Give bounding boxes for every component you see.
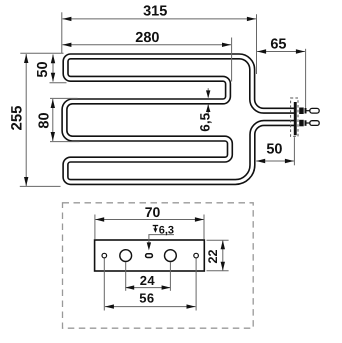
dimension 6,5 (tube diameter) (197, 88, 212, 131)
extension line right of 280 (x=231.6) (231, 38, 233, 82)
detail view dashed border box (63, 203, 254, 328)
extension line right of 70 (x=204) (203, 215, 205, 240)
dimension 70 (95, 204, 204, 222)
svg-text:65: 65 (270, 36, 286, 52)
small hole left (102, 253, 107, 258)
svg-text:56: 56 (139, 290, 154, 305)
terminal hole left (120, 250, 132, 262)
extension line bottom of 255 (y=186.4) (20, 185, 61, 187)
extension line left of 24 (x=125.7) (125, 262, 127, 291)
svg-text:24: 24 (140, 273, 156, 288)
dimension 280 (62, 30, 231, 47)
heating element tube (serpentine, outer outline) (65, 56, 295, 182)
dimension 315 (62, 4, 256, 22)
heating element tube (inner white core) (65, 56, 295, 182)
dimension 50 (left, vertical) (35, 54, 55, 82)
lower terminal pin (307, 122, 311, 124)
extension line right of 65 (x=305.6) (305, 49, 307, 108)
bracket plate (front view) (95, 240, 205, 271)
extension line right of 315 (x=257) (256, 14, 258, 74)
svg-text:50: 50 (266, 142, 282, 158)
extension line top of 22 (y=240.2) (207, 239, 229, 241)
svg-text:50: 50 (35, 61, 51, 77)
svg-text:70: 70 (145, 204, 161, 220)
dimension 255 (8, 54, 28, 186)
extension line right of 50 (x=294.4) (293, 137, 295, 165)
center slot (146, 254, 153, 258)
dimension 80 (left, vertical) (36, 99, 55, 141)
extension line bottom of 80 (y=141.6) (50, 141, 80, 143)
dimension 50 (right) (256, 142, 294, 164)
leader + label 6,3 for slot (147, 224, 174, 250)
extension line left of 70 (x=94.9) (94, 215, 96, 240)
terminal bracket dashed outline (291, 98, 298, 136)
extension line bottom of 50 (y=82.8) (50, 82, 67, 84)
upper connector tab (310, 108, 319, 113)
terminal hole right (165, 250, 177, 262)
svg-text:80: 80 (36, 112, 52, 128)
extension line right of 24 (x=170.4) (169, 262, 171, 291)
extension line right of 56 (x=196.1) (195, 259, 197, 311)
lower terminal nut (299, 120, 304, 127)
extension line left (x=61.8) (61, 12, 63, 53)
dimension 24 (125, 273, 170, 290)
extension line top of 80 (y=98.4) (50, 97, 78, 99)
small hole right (194, 253, 199, 258)
dimension 65 (257, 36, 305, 53)
svg-text:280: 280 (135, 30, 159, 46)
svg-text:255: 255 (8, 105, 25, 130)
svg-text:22: 22 (206, 250, 220, 264)
terminal bracket plate (edge view, solid) (294, 102, 297, 135)
dimension 22 (right of plate) (206, 240, 225, 270)
svg-text:315: 315 (143, 4, 167, 20)
lower connector tab (310, 121, 319, 126)
upper terminal pin (307, 110, 311, 112)
svg-text:6,5: 6,5 (197, 112, 212, 131)
dimension 56 (105, 290, 196, 308)
upper terminal nut (299, 108, 304, 115)
extension line top of 255 (y=53.2) (20, 52, 63, 54)
extension line bottom of 22 (y=270.7) (207, 270, 229, 272)
svg-text:6,3: 6,3 (159, 224, 174, 236)
extension line left of 56 (x=104.3) (103, 259, 105, 311)
